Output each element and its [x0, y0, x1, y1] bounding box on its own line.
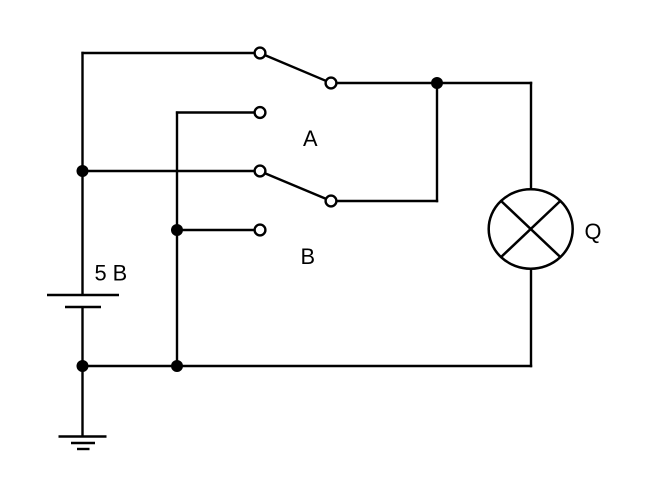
switch B upper contact: [255, 166, 266, 177]
switch A lower contact: [255, 107, 266, 118]
node junction battery/row3: [77, 165, 89, 177]
wire right vertical down to lamp: [530, 82, 532, 190]
wire top horizontal to switch A upper contact: [81, 52, 253, 54]
wire node vertical x=437 up to junction: [436, 83, 438, 202]
svg-text:Q: Q: [585, 219, 602, 244]
svg-text:B: B: [301, 244, 316, 269]
ground: [59, 437, 107, 450]
label lamp Q: [585, 219, 602, 244]
node junction bottom left: [77, 360, 89, 372]
wire bottom junction down to ground: [81, 366, 83, 437]
label switch A: [303, 126, 318, 151]
wire row4 horizontal from mid vertical to switch B lower contact: [177, 229, 254, 231]
wire row3 horizontal to switch B upper contact: [83, 170, 254, 172]
node junction bottom mid: [171, 360, 183, 372]
wire switch B pole to node vertical: [337, 200, 438, 202]
switch A blade: [266, 55, 326, 80]
svg-text:5 B: 5 B: [95, 260, 128, 285]
switch B blade: [266, 174, 326, 199]
battery B1 negative plate: [65, 306, 101, 308]
wire mid vertical x=177: [176, 111, 178, 366]
battery B1 positive plate: [47, 294, 119, 296]
wire row2 horizontal from mid vertical to switch A lower contact: [176, 111, 254, 113]
node junction switch outputs: [431, 77, 443, 89]
switch B pole contact: [326, 196, 337, 207]
switch A pole contact: [326, 78, 337, 89]
svg-text:A: A: [303, 126, 318, 151]
wire switch A pole to lamp top corner: [337, 82, 532, 84]
wire lamp bottom down: [530, 269, 532, 367]
wire battery negative down to bottom junction: [81, 307, 83, 366]
switch A upper contact: [255, 48, 266, 59]
wire bottom horizontal: [83, 365, 533, 367]
battery value label 5 B: [95, 260, 128, 285]
lamp Q: [489, 189, 573, 268]
node junction mid/row4: [171, 224, 183, 236]
wire from battery positive up left side: [81, 52, 83, 294]
label switch B: [301, 244, 316, 269]
switch B lower contact: [255, 225, 266, 236]
